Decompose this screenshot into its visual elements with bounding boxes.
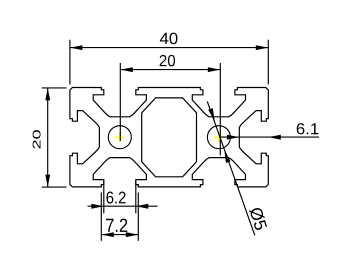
- arrow dim20v top: [45, 88, 50, 101]
- dim 6.2 line: [88, 205, 158, 207]
- dim 7.2 extension line left: [100, 193, 102, 241]
- central octagonal cavity: [142, 98, 197, 177]
- dim 6.2 extension line right: [135, 181, 137, 213]
- arrow dim20v bottom: [45, 175, 50, 188]
- hole left cell Ø5: [108, 126, 131, 149]
- dim 7.2 line: [101, 234, 138, 236]
- dim 20 horizontal line: [120, 69, 220, 71]
- dim 20 horizontal centerline right: [219, 63, 221, 155]
- dim text 7.2: [106, 219, 127, 232]
- dim 40 extension line right: [267, 40, 269, 85]
- dim text 20 top: [160, 55, 176, 66]
- arrow dim7.2 right: [126, 232, 139, 237]
- arrow dim20h left: [120, 67, 133, 72]
- yellow center mark right hole: [214, 133, 223, 142]
- hole right cell Ø5: [207, 126, 230, 149]
- profile outer boundary with T-slots: [70, 88, 268, 187]
- dia 5 leader line: [207, 102, 255, 236]
- arrow dim7.2 left: [101, 232, 114, 237]
- dim 20 vertical extension bottom: [42, 186, 67, 188]
- dim 6.2 extension line left: [103, 181, 105, 213]
- dim 20 horizontal centerline left: [119, 63, 121, 141]
- arrow dim40 right: [256, 45, 268, 50]
- arrow dim6.1 left: [227, 135, 240, 140]
- arrow dia5 upper: [208, 108, 215, 121]
- arrow dim40 left: [70, 45, 83, 50]
- arrow dim6.2 right: [136, 204, 149, 209]
- dim 7.2 extension line right: [137, 193, 139, 241]
- dim text dia5 (rotated): [249, 206, 268, 231]
- dim text 20 left (rotated): [33, 130, 41, 148]
- dim 40 extension line left: [69, 40, 71, 85]
- yellow center mark left hole: [115, 133, 124, 142]
- dim 6.1 line: [219, 136, 319, 138]
- dim text 6.2: [106, 192, 125, 204]
- dim text 6.1: [297, 123, 319, 134]
- dim 20 vertical extension top: [42, 87, 67, 89]
- arrow dim6.2 left: [91, 204, 104, 209]
- dim text 40: [160, 33, 178, 45]
- arrow dim20h right: [208, 67, 221, 72]
- dim 20 vertical line: [47, 88, 49, 187]
- arrow dim6.1 right: [268, 135, 281, 140]
- dim 40 line: [70, 47, 268, 49]
- arrow dia5 lower: [224, 149, 230, 163]
